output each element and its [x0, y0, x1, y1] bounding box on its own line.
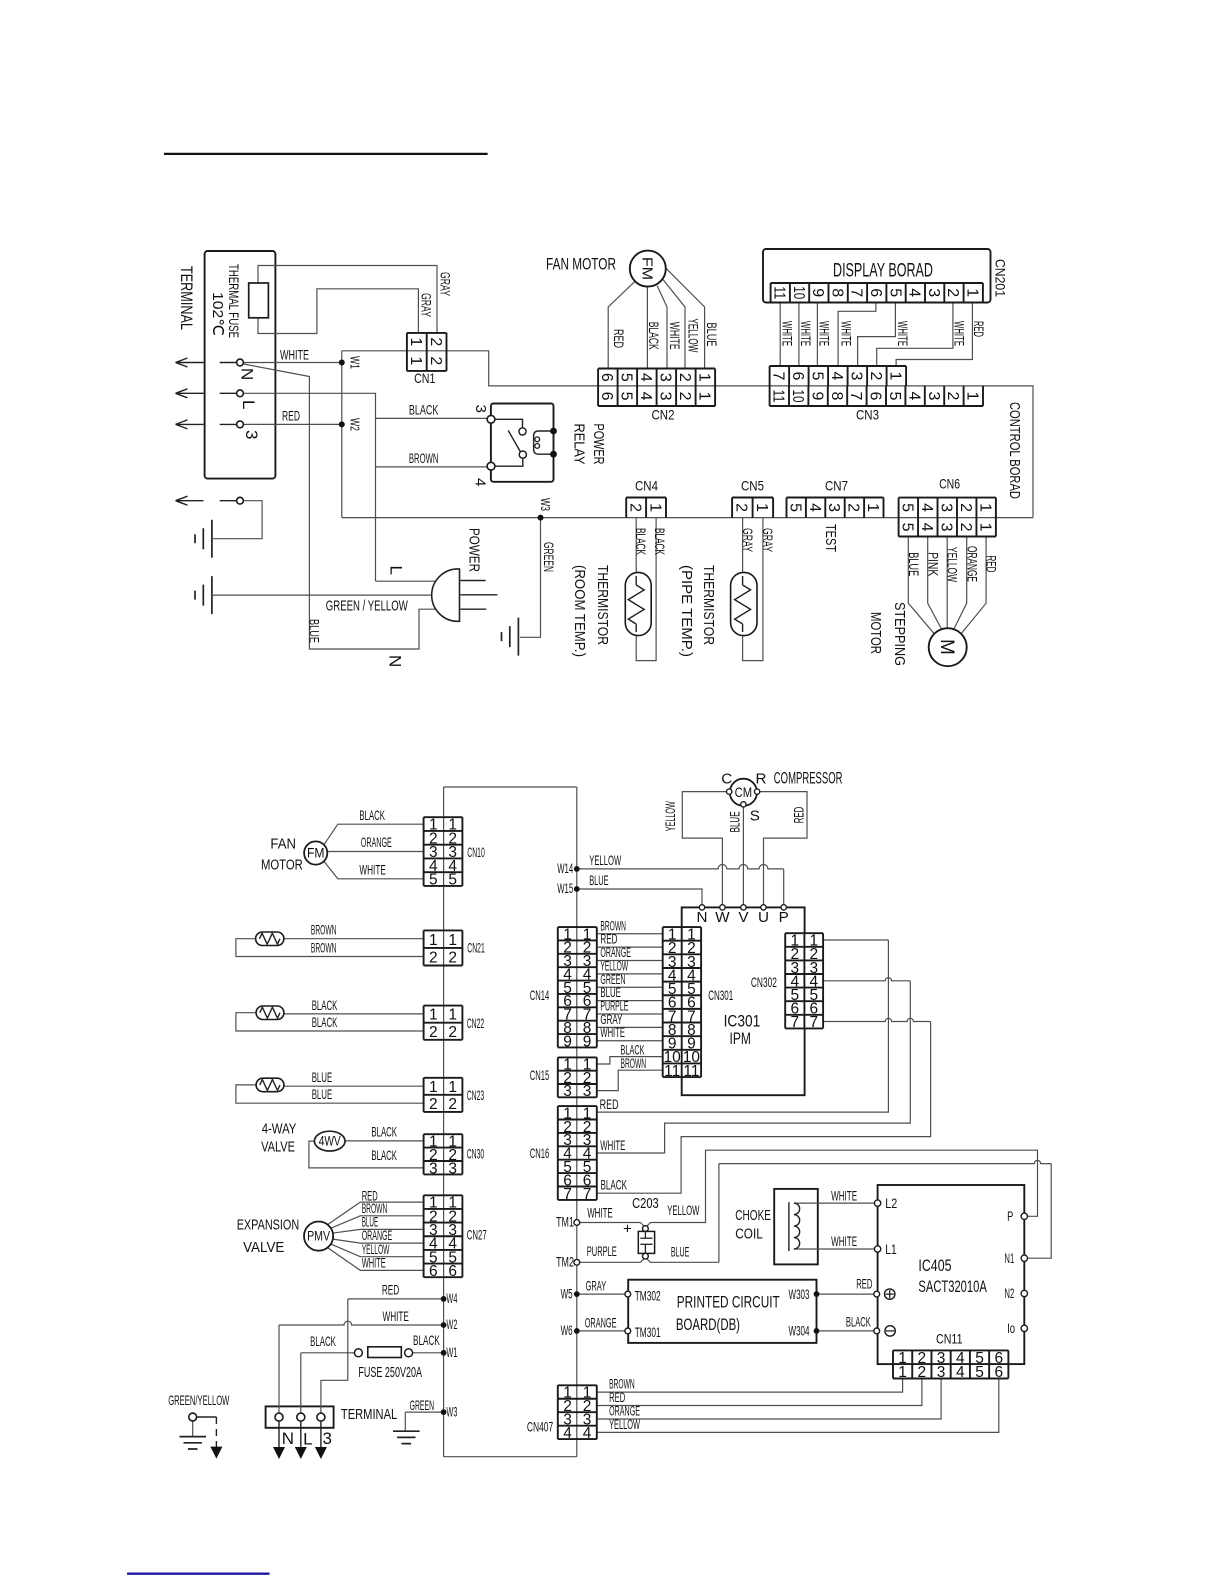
label 3 [242, 430, 261, 439]
label CN23 [467, 1088, 485, 1103]
wire main bus to control board [983, 386, 1033, 518]
label CN407 [527, 1420, 553, 1435]
label RED (CN14-2) [600, 932, 617, 947]
svg-text:2: 2 [448, 1096, 457, 1113]
thermistor (outdoor) body 3 [256, 1078, 284, 1092]
svg-text:FM: FM [307, 846, 325, 861]
wire CN4 pin1 black [636, 518, 656, 661]
label WHITE (fan outdoor) [359, 862, 385, 877]
connector CN3 lower fill [770, 386, 983, 406]
choke coil winding [794, 1203, 800, 1249]
capacitor C203 body [638, 1231, 654, 1253]
label RED [282, 409, 300, 424]
IC405 terminal - in [874, 1328, 880, 1334]
junction W3 (outdoor) [441, 1409, 447, 1415]
svg-text:11: 11 [664, 1063, 680, 1080]
svg-text:5: 5 [899, 503, 916, 512]
arrow terminal 3 [176, 420, 204, 429]
connector CN407 fill [558, 1385, 597, 1439]
plug prong E [461, 594, 498, 596]
svg-text:3: 3 [937, 523, 954, 532]
svg-text:3: 3 [925, 288, 942, 297]
label WHITE (display wire) [839, 321, 854, 346]
wire W5 gray to TM302 [577, 1293, 625, 1295]
svg-text:7: 7 [770, 371, 787, 380]
label COIL [735, 1226, 763, 1243]
arrow earth terminal [176, 496, 204, 505]
svg-text:L1: L1 [885, 1242, 897, 1257]
label BROWN (CN14-1) [600, 918, 626, 933]
label BLACK (CN4 pin1) [652, 528, 667, 555]
wire earth to ground (outdoor) [192, 1421, 194, 1437]
label W6 [561, 1323, 573, 1338]
arrow terminal N [176, 358, 204, 367]
svg-text:3: 3 [583, 1083, 592, 1100]
svg-text:2: 2 [427, 356, 444, 365]
wire CN14-1 BROWN [597, 933, 663, 935]
svg-text:5: 5 [899, 523, 916, 532]
thermal fuse F1 102C [249, 283, 269, 318]
wire stepping motor BLUE [908, 537, 934, 634]
wire compressor R red [760, 792, 807, 905]
svg-text:1: 1 [887, 371, 904, 380]
wire CN14-3 ORANGE [597, 960, 663, 962]
svg-text:Io: Io [1007, 1321, 1015, 1336]
label POWER RELAY [571, 424, 608, 465]
connector CN3 upper fill [770, 366, 907, 386]
wire fan motor YELLOW [662, 278, 685, 368]
label YELLOW (stepping motor wire) [945, 547, 960, 582]
svg-text:BLACK: BLACK [646, 322, 661, 350]
connector CN30 fill [424, 1134, 463, 1174]
svg-text:BLACK: BLACK [409, 403, 439, 418]
svg-text:R: R [756, 770, 767, 787]
connector CN3 upper row (pins 7-1) [770, 366, 907, 386]
svg-text:RED: RED [791, 807, 806, 824]
label THERMAL FUSE [226, 264, 241, 338]
svg-text:ORANGE: ORANGE [362, 1228, 393, 1243]
svg-text:PRINTED CIRCUIT: PRINTED CIRCUIT [677, 1293, 780, 1312]
wire stepping motor RED [961, 537, 986, 634]
svg-text:1: 1 [448, 1007, 457, 1024]
svg-text:2: 2 [957, 523, 974, 532]
wire CN14-9 WHITE [597, 1040, 663, 1042]
svg-text:11: 11 [683, 1063, 699, 1080]
connector CN4 fill [626, 498, 666, 518]
svg-text:6: 6 [429, 1263, 438, 1280]
svg-text:6: 6 [598, 392, 615, 401]
junction W3 [538, 515, 544, 521]
label CN10 [467, 845, 485, 860]
svg-text:W1: W1 [348, 356, 362, 369]
label YELLOW (PMV) [362, 1242, 390, 1257]
connector CN1 fill [407, 333, 447, 371]
junction W14 [574, 866, 580, 872]
label W2 [348, 418, 362, 431]
label R [756, 770, 767, 787]
svg-text:TM1: TM1 [556, 1215, 574, 1230]
svg-text:CN2: CN2 [652, 408, 675, 423]
wire W1 vertical bus [341, 351, 343, 518]
label P (IC405) [1007, 1209, 1013, 1224]
label DISPLAY BORAD [833, 261, 933, 282]
wire BLACK (4wv pin1) [345, 1140, 424, 1142]
svg-text:W2: W2 [446, 1317, 457, 1332]
svg-text:2: 2 [918, 1364, 927, 1381]
svg-text:9: 9 [583, 1033, 592, 1050]
thermistor room sensor body [625, 572, 651, 635]
wire BLACK 1 (CN22) [284, 1013, 424, 1015]
label BLACK (4wv pin1) [371, 1124, 397, 1139]
label W304 [789, 1324, 810, 1339]
IPM terminal V [741, 905, 746, 910]
label WHITE (W2) [383, 1309, 409, 1324]
svg-text:W303: W303 [789, 1287, 810, 1302]
svg-text:BLACK: BLACK [601, 1178, 628, 1193]
thermistor element 2 [260, 1007, 280, 1018]
wire CN14-7 PURPLE [597, 1013, 663, 1015]
svg-text:4: 4 [563, 1425, 572, 1442]
wire board edge via CN1 CN2 CN3 [342, 351, 983, 386]
connector CN23 (pins 1,2) [424, 1078, 463, 1113]
label PMV [307, 1228, 331, 1243]
label CHOKE [735, 1207, 771, 1224]
wire PMV ORANGE [333, 1239, 424, 1243]
IC405 terminal N2 [1021, 1290, 1027, 1296]
label GRAY (CN5 pin1) [760, 528, 775, 552]
svg-text:4: 4 [905, 391, 922, 400]
svg-text:1: 1 [864, 503, 881, 512]
label BLACK (CN15-1) [621, 1042, 645, 1057]
label 4 (relay pin) [472, 478, 489, 486]
arrow terminal L (outdoor) [295, 1421, 307, 1459]
label POWER [466, 528, 483, 572]
relay contact wiring [495, 419, 523, 427]
label BLUE [307, 619, 322, 643]
svg-text:N: N [697, 909, 708, 926]
svg-text:ORANGE: ORANGE [965, 546, 980, 582]
svg-text:CHOKE: CHOKE [735, 1207, 771, 1224]
wire W3 bus [342, 517, 1033, 519]
svg-text:RED: RED [856, 1277, 872, 1292]
label W1 (outdoor) [446, 1345, 457, 1360]
label ORANGE (PMV) [362, 1228, 393, 1243]
svg-text:BLUE: BLUE [312, 1070, 333, 1085]
svg-text:C203: C203 [632, 1195, 659, 1212]
svg-text:IC301: IC301 [724, 1011, 761, 1030]
svg-text:BROWN: BROWN [311, 940, 337, 955]
wire compressor C yellow [682, 792, 726, 905]
svg-text:CN7: CN7 [825, 479, 848, 494]
svg-text:RED: RED [600, 1097, 619, 1112]
label W2 (outdoor) [446, 1317, 457, 1332]
label BLACK (relay in) [409, 403, 439, 418]
junction W303 [814, 1291, 820, 1297]
svg-text:YELLOW: YELLOW [667, 1203, 699, 1218]
wire BROWN 1 [284, 938, 424, 940]
connector CN22 (pins 1,2) [424, 1006, 463, 1041]
svg-text:WHITE: WHITE [383, 1309, 409, 1324]
svg-text:4: 4 [918, 503, 935, 512]
label W3 [538, 498, 552, 511]
label S [750, 807, 760, 824]
label BLUE (C203-) [671, 1244, 689, 1259]
svg-text:3: 3 [848, 371, 865, 380]
wire black to relay pin3 [376, 417, 490, 419]
label RED (display wire) [971, 321, 986, 337]
IC405 terminal L1 [874, 1246, 880, 1252]
label CN6 [939, 477, 960, 492]
earth terminal contact [237, 497, 244, 504]
svg-text:TM301: TM301 [635, 1325, 661, 1340]
display board box [763, 249, 991, 303]
wire PMV RED [328, 1202, 424, 1224]
label TERMINAL (outdoor) [341, 1406, 397, 1423]
svg-text:BLACK: BLACK [312, 1015, 338, 1030]
svg-text:W14: W14 [557, 861, 573, 876]
svg-text:N2: N2 [1004, 1286, 1014, 1301]
svg-text:7: 7 [583, 1186, 592, 1203]
svg-text:MOTOR: MOTOR [867, 612, 884, 654]
svg-text:5: 5 [886, 288, 903, 297]
connector CN201 (pins 11-1) [770, 283, 982, 303]
connector CN27 fill [424, 1195, 463, 1277]
connector CN6 fill [899, 498, 996, 537]
wire display pin1 red [896, 303, 972, 367]
svg-text:CM: CM [735, 785, 753, 800]
label N2 (IC405) [1004, 1286, 1014, 1301]
IPM module IC301 box [682, 907, 805, 1095]
label YELLOW (compressor) [663, 801, 678, 831]
wire red 3 to W2 [243, 423, 341, 425]
wire display pin9 white [816, 303, 818, 367]
svg-text:BLACK: BLACK [371, 1124, 397, 1139]
wire PMV BLUE [333, 1229, 424, 1233]
svg-text:BLACK: BLACK [413, 1333, 440, 1348]
svg-text:CN15: CN15 [530, 1068, 550, 1083]
svg-text:1: 1 [696, 392, 713, 401]
svg-text:W5: W5 [561, 1286, 573, 1301]
connector CN7 (pins 5-1) [786, 498, 883, 518]
svg-text:6: 6 [867, 391, 884, 400]
junction W6 [574, 1328, 580, 1334]
svg-text:WHITE: WHITE [600, 1138, 625, 1153]
svg-text:2: 2 [957, 503, 974, 512]
label WHITE (CN14-9) [600, 1025, 625, 1040]
svg-text:P: P [1007, 1209, 1013, 1224]
svg-text:YELLOW: YELLOW [945, 547, 960, 582]
svg-text:4-WAY: 4-WAY [262, 1121, 297, 1138]
label GREEN / YELLOW [326, 598, 409, 615]
junction W1 (outdoor) [441, 1350, 447, 1356]
label WHITE (TM1) [587, 1206, 613, 1221]
svg-text:2: 2 [427, 337, 444, 346]
label U (IPM) [758, 909, 769, 926]
label L1 [885, 1242, 897, 1257]
label YELLOW (W14) [589, 853, 621, 868]
wire fan motor BLUE [666, 269, 704, 369]
svg-text:RED: RED [282, 409, 300, 424]
svg-text:SACT32010A: SACT32010A [918, 1277, 987, 1296]
svg-text:3: 3 [925, 391, 942, 400]
wire yellow C203 to P [647, 1150, 1038, 1226]
svg-text:BROWN: BROWN [311, 923, 337, 938]
wire red drop to terminal 3 [321, 1299, 348, 1413]
svg-text:P: P [779, 909, 789, 926]
label GRAY (CN5 pin2) [740, 528, 755, 552]
svg-text:5: 5 [448, 872, 457, 889]
power plug [432, 569, 460, 621]
wire BLACK (4wv pin3) [309, 1141, 424, 1168]
svg-text:2: 2 [676, 373, 693, 382]
connector CN27 (pins 1-6) [424, 1195, 463, 1280]
svg-text:WHITE: WHITE [831, 1234, 857, 1249]
label YELLOW (CN14-4) [600, 958, 628, 973]
wire W303 red [817, 1293, 874, 1295]
wire CN302-7 stub with hops [823, 1018, 931, 1021]
wire stepping motor ORANGE [954, 537, 967, 630]
wire brown relay pin4 [376, 466, 490, 468]
label GRAY (W5) [586, 1278, 607, 1293]
thermistor element 1 [260, 933, 281, 944]
svg-text:VALVE: VALVE [243, 1239, 284, 1256]
svg-text:7: 7 [847, 391, 864, 400]
connector CN2 fill [598, 369, 715, 407]
label WHITE (L1) [831, 1234, 857, 1249]
svg-text:WHITE: WHITE [359, 862, 385, 877]
capacitor C203 plates [640, 1231, 652, 1253]
svg-text:W6: W6 [561, 1323, 573, 1338]
label BLACK (fuse right) [413, 1333, 440, 1348]
fuse F401 body [368, 1347, 402, 1358]
label CN301 [708, 988, 733, 1003]
power relay RY1 box [491, 404, 554, 482]
svg-text:DISPLAY BORAD: DISPLAY BORAD [833, 261, 933, 282]
label 4-WAY [262, 1121, 297, 1138]
label RED (CN16-1) [600, 1097, 619, 1112]
svg-text:7: 7 [809, 1014, 818, 1031]
label CN16 [530, 1146, 550, 1161]
label W303 [789, 1287, 810, 1302]
label BROWN (CN21 pin2) [311, 940, 337, 955]
label PINK (stepping motor wire) [926, 552, 941, 577]
svg-text:WHITE: WHITE [952, 321, 967, 346]
svg-text:YELLOW: YELLOW [589, 853, 621, 868]
thermistor (outdoor) body 1 [256, 932, 284, 946]
label CN2 [652, 408, 675, 423]
svg-text:TM2: TM2 [556, 1255, 574, 1270]
label BROWN (relay out) [409, 451, 439, 466]
label FUSE 250V20A [358, 1364, 422, 1381]
label BLUE (CN23 pin1) [312, 1070, 333, 1085]
svg-text:M: M [936, 639, 957, 655]
svg-text:BLACK: BLACK [652, 528, 667, 555]
label BLUE (CN23 pin2) [312, 1087, 333, 1102]
svg-text:1: 1 [429, 1007, 438, 1024]
svg-text:YELLOW: YELLOW [663, 801, 678, 831]
svg-text:TEST: TEST [822, 524, 839, 552]
arrow terminal N (outdoor) [273, 1421, 285, 1459]
svg-text:V: V [738, 909, 749, 926]
svg-text:BOARD(DB): BOARD(DB) [676, 1315, 740, 1334]
label GREEN (CN14-5) [600, 972, 625, 987]
terminal N contact [237, 359, 244, 366]
label YELLOW (fan wire) [686, 318, 701, 352]
label BLACK (CN22 pin2) [312, 1015, 338, 1030]
connector CN10 fill [424, 817, 463, 886]
label VALVE (pmv) [243, 1239, 284, 1256]
label BLACK (fuse left) [310, 1334, 336, 1349]
wire blue C203 to N1 [647, 1160, 1052, 1262]
relay contact pin 3 [487, 415, 495, 423]
label RED (CN407) [609, 1390, 625, 1405]
label MOTOR (outdoor) [261, 857, 303, 874]
svg-text:GREEN: GREEN [410, 1398, 435, 1413]
label N [237, 368, 256, 380]
connector CN11 fill [893, 1350, 1008, 1378]
label SACT32010A [918, 1277, 987, 1296]
svg-text:GRAY: GRAY [740, 528, 755, 552]
svg-text:5: 5 [618, 392, 635, 401]
expansion valve PMV [304, 1222, 333, 1251]
wire fan WHITE [324, 861, 424, 879]
label M (stepping motor) [936, 639, 957, 655]
svg-text:FM: FM [638, 257, 655, 280]
label RED (compressor) [791, 807, 806, 824]
label CN14 [530, 988, 550, 1003]
svg-text:BROWN: BROWN [409, 451, 439, 466]
label RED (fan wire) [611, 329, 626, 348]
svg-text:EXPANSION: EXPANSION [237, 1217, 300, 1234]
wire choke to L1 white [794, 1248, 875, 1250]
svg-text:FAN: FAN [270, 836, 296, 853]
wire GREEN W3 [405, 1411, 443, 1413]
wire fuse to W1 [413, 1352, 444, 1354]
svg-text:CN23: CN23 [467, 1088, 485, 1103]
label N1 (IC405) [1004, 1251, 1014, 1266]
wire BROWN 2 [236, 939, 424, 957]
svg-text:4: 4 [806, 503, 823, 512]
svg-text:7: 7 [848, 288, 865, 297]
svg-text:1: 1 [898, 1364, 907, 1381]
svg-text:4: 4 [918, 523, 935, 532]
svg-text:6: 6 [598, 373, 615, 382]
label CN7 [825, 479, 848, 494]
label BROWN (CN407) [609, 1377, 635, 1392]
connector CN7 fill [787, 498, 884, 518]
wire display pin6 white [838, 303, 876, 367]
connector CN14 fill [558, 927, 597, 1047]
label TM1 [556, 1215, 574, 1230]
thermistor (outdoor) body 2 [256, 1006, 284, 1020]
svg-text:CN301: CN301 [708, 988, 733, 1003]
svg-text:COIL: COIL [735, 1226, 763, 1243]
svg-text:1: 1 [976, 503, 993, 512]
label THERMISTOR (ROOM TEMP.) [571, 565, 611, 657]
label L2 [885, 1196, 897, 1211]
connector CN407 (pins 1-4) [558, 1385, 597, 1442]
svg-text:ORANGE: ORANGE [361, 835, 392, 850]
svg-text:W15: W15 [557, 881, 573, 896]
svg-text:(ROOM TEMP.): (ROOM TEMP.) [571, 565, 588, 657]
svg-text:3: 3 [937, 503, 954, 512]
svg-text:2: 2 [845, 503, 862, 512]
connector CN301 (pins 1-11) [663, 926, 701, 1079]
svg-text:BLACK: BLACK [846, 1315, 871, 1330]
svg-text:BLUE: BLUE [671, 1244, 689, 1259]
wire stepping motor PINK [928, 537, 942, 630]
label C [721, 770, 732, 787]
